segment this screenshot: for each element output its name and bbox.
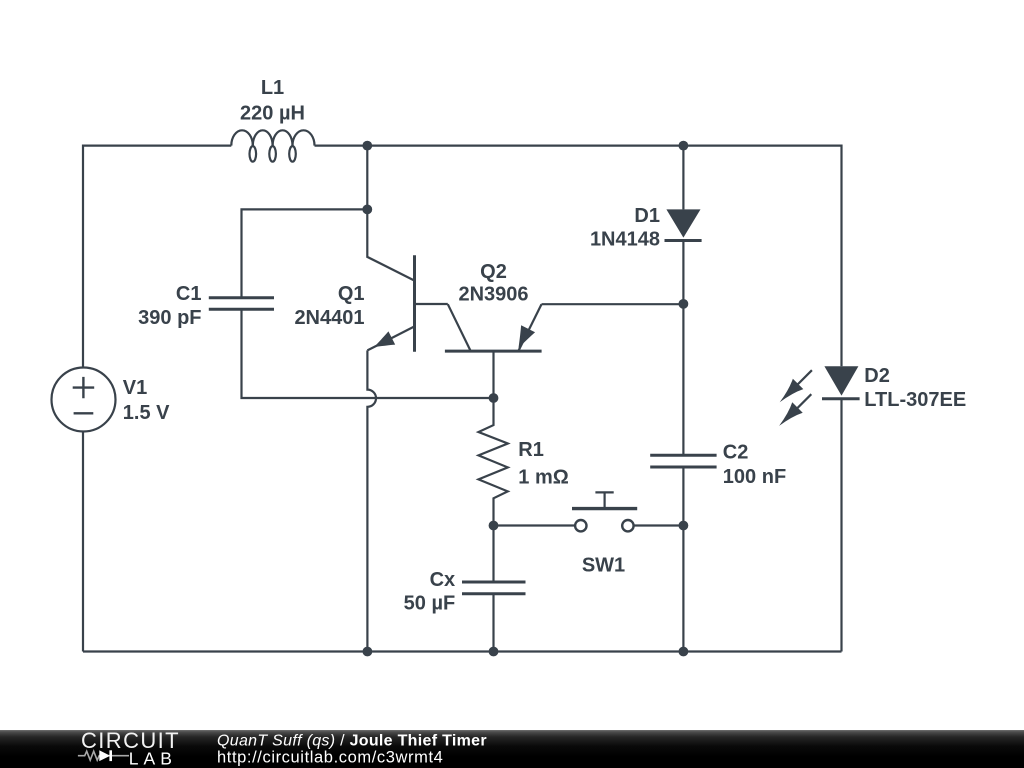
node top rail / Q1 collector <box>362 141 372 151</box>
svg-text:1N4148: 1N4148 <box>590 229 660 251</box>
node bottom rail / Q1 emitter <box>363 647 373 657</box>
wire C1 top branch <box>242 209 368 297</box>
wire top rail right segment <box>315 146 842 367</box>
node top rail / D1 <box>679 141 689 151</box>
svg-text:D1: D1 <box>634 205 660 227</box>
svg-text:1 mΩ: 1 mΩ <box>518 467 569 489</box>
svg-text:Q2: Q2 <box>480 261 507 283</box>
node Q2 base / R1 / C1 wire <box>489 393 499 403</box>
switch SW1 <box>494 492 684 531</box>
transistor Q2 <box>445 304 542 398</box>
wire Q1 collector column from top rail <box>367 146 414 281</box>
node SW1 / C2 column <box>679 521 689 531</box>
wire left rail bottom segment <box>82 432 84 652</box>
svg-text:D2: D2 <box>864 365 890 387</box>
svg-text:L1: L1 <box>261 77 284 99</box>
svg-text:R1: R1 <box>518 439 544 461</box>
node bottom rail / C2 <box>679 647 689 657</box>
svg-text:LTL-307EE: LTL-307EE <box>864 389 966 411</box>
svg-text:390 pF: 390 pF <box>138 307 201 329</box>
svg-text:QuanT Suff (qs) / Joule Thief: QuanT Suff (qs) / Joule Thief Timer <box>217 733 487 750</box>
wire bottom rail <box>83 650 842 652</box>
svg-text:2N4401: 2N4401 <box>294 307 364 329</box>
node C1 / Q1 collector <box>362 205 372 215</box>
svg-text:100 nF: 100 nF <box>723 466 786 488</box>
svg-text:C1: C1 <box>176 283 202 305</box>
svg-text:1.5 V: 1.5 V <box>123 402 170 424</box>
svg-text:Cx: Cx <box>430 569 456 591</box>
transistor Q1 <box>367 255 447 352</box>
svg-text:220 µH: 220 µH <box>240 103 305 125</box>
diode D1 <box>665 146 702 456</box>
svg-text:50 µF: 50 µF <box>404 593 456 615</box>
svg-text:Q1: Q1 <box>338 283 365 305</box>
node Q2 emitter / D1 cathode <box>679 299 689 309</box>
svg-text:LAB: LAB <box>129 749 177 768</box>
inductor L1 <box>231 130 314 161</box>
capacitor Cx <box>462 582 526 594</box>
capacitor C2 <box>650 455 716 467</box>
wire Q1 emitter down with hop over horizontal wire <box>367 350 376 651</box>
footer logo wire and diode <box>101 755 129 757</box>
wire top rail left segment <box>83 146 231 368</box>
svg-text:C2: C2 <box>723 442 749 464</box>
resistor R1 <box>479 398 508 526</box>
wire Q2 emitter to D1 column <box>542 303 684 305</box>
svg-text:V1: V1 <box>123 377 147 399</box>
node R1 / SW1 <box>489 521 499 531</box>
node bottom rail / Cx <box>489 647 499 657</box>
svg-text:2N3906: 2N3906 <box>458 284 528 306</box>
wire R1 bottom to Cx <box>492 526 494 583</box>
capacitor C1 <box>209 298 274 310</box>
wire C2 bottom to bottom rail <box>682 467 684 652</box>
svg-text:SW1: SW1 <box>582 555 625 577</box>
footer bar <box>0 730 1024 768</box>
footer logo squiggle resistor <box>78 751 101 760</box>
wire Cx bottom to bottom rail <box>492 594 494 652</box>
wire C1 bottom to node A (crossed by emitter hop) <box>242 309 494 398</box>
LED D2 <box>779 366 860 426</box>
voltage source V1 <box>52 368 116 432</box>
wire right rail lower segment (D2 cathode to bottom rail) <box>840 399 842 652</box>
svg-text:http://circuitlab.com/c3wrmt4: http://circuitlab.com/c3wrmt4 <box>217 749 443 767</box>
